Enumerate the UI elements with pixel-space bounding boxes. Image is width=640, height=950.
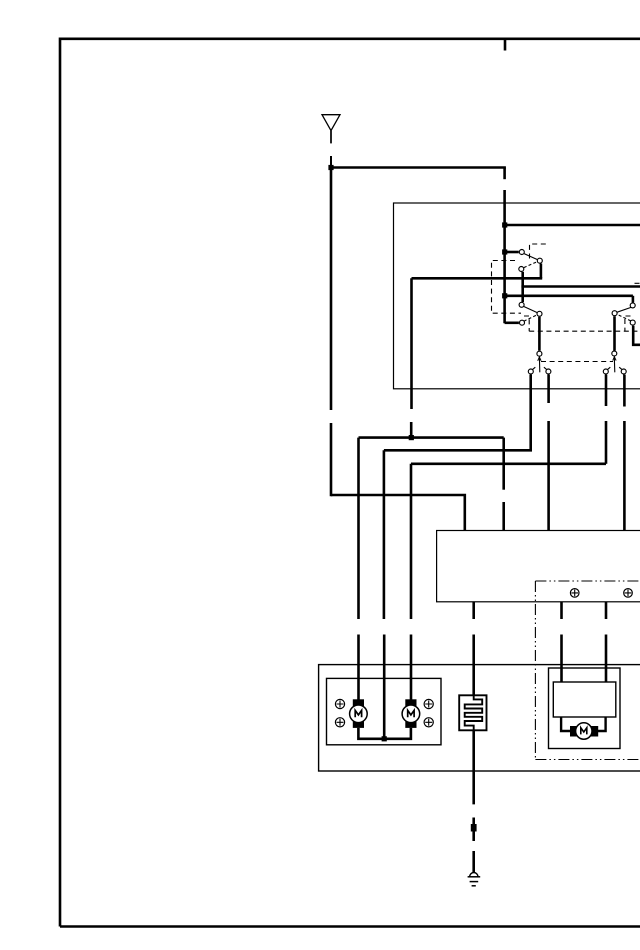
contact K2-a <box>519 302 524 307</box>
actuator assembly box <box>319 665 640 771</box>
screw terminal S-d <box>424 718 433 727</box>
wire: stub to contact K2-c <box>505 321 519 324</box>
relay K4 enclosure at right edge (dashed) <box>635 282 640 284</box>
contact K3-b <box>612 311 617 316</box>
contact K3-a <box>630 303 635 308</box>
relay K3 enclosure (dashed corner) <box>625 316 631 331</box>
wire: drive block to M3 right lead <box>598 717 606 731</box>
screw terminal S-c <box>424 699 433 708</box>
wire: bus1 drop (broken) <box>410 278 413 437</box>
contact K2-c <box>520 320 525 325</box>
wire: M1-M2 common return <box>358 728 411 739</box>
wire: junction block to motor M3 right (broken) <box>605 602 608 682</box>
junction: wire A node <box>409 435 414 440</box>
junction: feed to bus2 <box>502 293 507 298</box>
splice connector <box>471 824 477 832</box>
wire: antenna lead-in <box>330 156 332 168</box>
motor unit box (left) <box>327 678 442 744</box>
antenna <box>322 115 340 144</box>
wire: bus E to right edge <box>521 285 640 288</box>
junction: motor common node <box>382 736 387 741</box>
wire C: horizontal link <box>411 462 606 465</box>
wire: heater to ground (upper) <box>472 730 475 804</box>
contact K3-c <box>630 320 635 325</box>
wire: motor M1 feed down (broken) <box>357 438 360 700</box>
junction: feed to contact K1-a <box>502 249 507 254</box>
wire: motor M2 feed down (broken) <box>410 464 413 700</box>
wire: throw4 drop to junction block (broken) <box>623 375 626 531</box>
wire: K1-c to K2-a vertical <box>521 272 524 302</box>
contact K2-b <box>537 311 542 316</box>
off-page connector tick (top border) <box>504 40 507 51</box>
relay K1 arm (alternate position, dashed) <box>524 262 537 268</box>
wire: motor common drop (broken) <box>383 450 386 739</box>
gear/drive block <box>553 682 616 717</box>
mechanical link S1-S2 (dashed) <box>541 361 613 363</box>
contact K1-a <box>519 250 524 255</box>
junction: antenna node <box>328 165 333 170</box>
switch S2 throw contact 2 <box>619 367 626 374</box>
ground <box>468 873 481 886</box>
relay unit box <box>394 203 640 389</box>
heater element R1 <box>459 695 486 730</box>
wire: K3-b drop to switch pole S2 <box>613 316 616 350</box>
screw terminal S-b <box>335 718 344 727</box>
wire: top bus to right edge <box>505 224 640 227</box>
switch S1 pole contact <box>537 351 542 356</box>
wire D: antenna run to junction block <box>331 495 465 531</box>
junction block J/B <box>437 531 640 602</box>
wire: bus1 horizontal <box>412 277 543 280</box>
wire: bus2 horizontal to relay K3 <box>505 294 633 297</box>
wire: K1-b drop to bus1 <box>540 264 543 279</box>
wire A: horizontal link <box>359 436 504 439</box>
wire: ground run (middle, broken) <box>472 818 475 842</box>
wire: junction block to heater element (broken) <box>472 602 475 696</box>
wire: relay feed drop (broken) <box>503 168 506 324</box>
motor M2 <box>402 699 420 728</box>
wire: drive block to M3 left lead <box>561 717 570 731</box>
contact K1-c <box>519 267 524 272</box>
wire: K2-b drop to switch pole S1 <box>538 317 541 351</box>
screw terminal B2 <box>624 589 633 598</box>
relay K2 enclosure (dashed corner) <box>524 316 529 331</box>
motor unit box (right) <box>549 668 621 749</box>
wire: antenna node to relay feed (horizontal) <box>331 166 506 169</box>
screw terminal S-a <box>335 699 344 708</box>
switch S2 arm with arrowhead <box>613 357 616 373</box>
switch S2 pole contact <box>612 351 617 356</box>
screw terminal B1 <box>570 589 579 598</box>
relay K3 arm (closed position) <box>617 307 631 312</box>
wire: throw2 drop to junction block (broken) <box>547 375 550 531</box>
wire B: throw1 to motor common <box>384 375 531 451</box>
motor M3 <box>570 723 598 739</box>
wire C: throw3 drop (broken) <box>605 375 608 464</box>
junction: feed to right bus <box>502 222 507 227</box>
wire: bus2 drop to K3-a <box>632 296 635 303</box>
contact K1-b <box>537 258 542 263</box>
relay K2 arm (closed position) <box>523 306 537 312</box>
motor M1 <box>350 699 368 728</box>
relay K3 arm (alternate position, dashed) <box>618 315 631 321</box>
switch S2 throw contact 1 <box>603 367 610 374</box>
dashed boundary line to right edge <box>529 330 640 332</box>
wire: K3-c exit to right edge <box>633 326 640 345</box>
wire: stub to contact K1-a <box>505 251 519 254</box>
control unit enclosure (dash-dot) <box>535 581 640 760</box>
wire: antenna main run down (broken) <box>330 168 333 497</box>
wire: junction block to motor M3 left (broken) <box>560 602 563 682</box>
wire: wire A drop to junction block (broken) <box>502 438 505 531</box>
relay coil enclosure (dashed box) <box>492 261 522 314</box>
relay K2 arm (alternate position, dashed) <box>524 315 537 321</box>
relay K1 arm (closed position) <box>523 253 537 259</box>
switch S1 arm with arrowhead <box>538 357 541 372</box>
switch S1 throw contact 2 <box>544 367 551 374</box>
wire: ground run (lower, broken) <box>472 851 475 872</box>
relay K1 enclosure (dashed corner) <box>530 244 549 259</box>
switch S1 throw contact 1 <box>528 367 535 374</box>
